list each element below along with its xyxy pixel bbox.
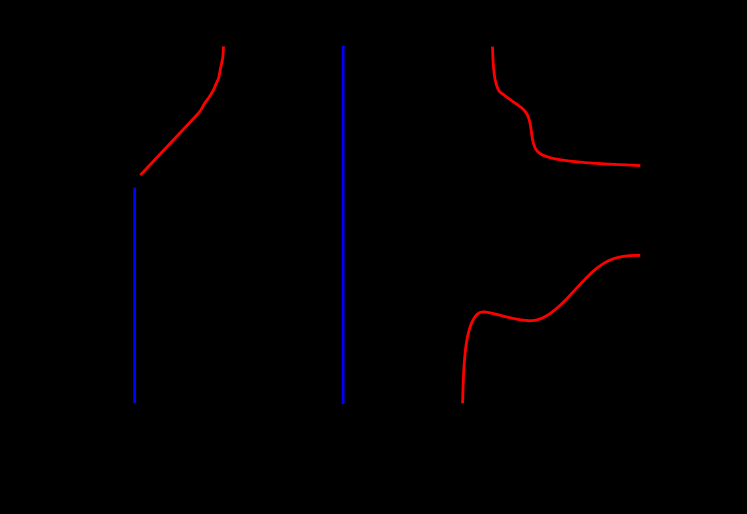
red curve left branch — [140, 46, 223, 175]
blue vertical line 1 (x=134.6) — [133, 188, 136, 404]
red curve upper-right branch — [493, 47, 641, 166]
blue vertical line 2 (x=343.1) — [342, 46, 345, 405]
red curve lower-right branch — [463, 255, 641, 403]
